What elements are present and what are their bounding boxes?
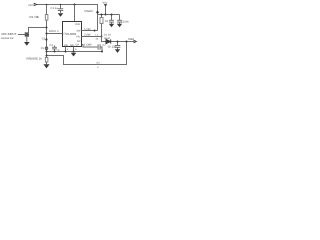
wire feedback bottom loop (47, 42, 127, 65)
node rail start dot (96, 11, 98, 13)
svg-text:4: 4 (67, 48, 69, 51)
capacitor C6 output (115, 42, 121, 50)
ground R2 (43, 64, 49, 68)
svg-text:C7: C7 (103, 44, 107, 47)
svg-text:FB: FB (77, 36, 80, 39)
power input arrow (34, 3, 37, 5)
op-amp U1 box (63, 22, 82, 47)
svg-text:MIC INPUT: MIC INPUT (2, 32, 17, 36)
svg-text:EN: EN (64, 33, 68, 36)
node tap dot (45, 38, 47, 40)
svg-text:RSENSE 1k: RSENSE 1k (27, 57, 43, 61)
ground C6 (115, 49, 120, 53)
svg-text:C1 1u: C1 1u (51, 7, 59, 10)
resistor R1 pullup (45, 5, 48, 34)
capacitor C5 (117, 15, 122, 24)
svg-text:GN: GN (70, 44, 74, 47)
capacitor C7 series (98, 44, 102, 51)
resistor R2 (45, 58, 48, 63)
ground C5 (117, 24, 122, 28)
svg-text:GN: GN (64, 44, 68, 47)
capacitor C1 (58, 5, 63, 14)
svg-text:NC: NC (77, 40, 81, 43)
svg-text:+5V: +5V (28, 4, 33, 7)
svg-text:a: a (97, 66, 99, 69)
wire top rail (37, 5, 98, 31)
svg-text:VDD: VDD (75, 23, 80, 26)
wire connector ground stub (26, 36, 28, 42)
svg-text:3 SW: 3 SW (84, 34, 91, 37)
svg-text:electret mic: electret mic (1, 37, 15, 40)
svg-text:C3: C3 (50, 44, 54, 47)
inductor L1 (100, 15, 103, 37)
ground connector (24, 42, 30, 46)
svg-text:C100n: C100n (121, 21, 129, 24)
wire SW pin row (82, 37, 135, 42)
wire vcc rail (98, 14, 120, 16)
ground C4 (109, 24, 114, 28)
wire label to connector (18, 34, 25, 36)
svg-text:C2: C2 (42, 37, 46, 40)
wire VDD pin drop (74, 5, 76, 22)
svg-text:XL6009: XL6009 (67, 32, 77, 36)
node input junction (46, 27, 48, 29)
wire divider chain (46, 34, 48, 58)
connector J1 (25, 33, 28, 36)
ground under C1 (58, 13, 64, 17)
node VIN junction dot top (74, 4, 76, 6)
svg-text:5 VIN: 5 VIN (84, 28, 91, 31)
svg-text:R1 10k: R1 10k (30, 15, 40, 19)
svg-text:Vout: Vout (128, 37, 134, 41)
svg-text:1 CMP: 1 CMP (84, 44, 92, 47)
wire COMP pin (82, 45, 98, 48)
wire input to IC (29, 28, 63, 35)
svg-text:CP: CP (76, 44, 80, 47)
connector P1 circle (45, 47, 48, 50)
wire VIN pin row (82, 30, 98, 32)
node output junction (126, 41, 128, 43)
svg-text:C4: C4 (105, 20, 109, 23)
svg-text:P1: P1 (41, 47, 45, 50)
svg-text:G: G (58, 49, 60, 52)
node dot C3 (54, 51, 56, 53)
svg-text:DOUT 5: DOUT 5 (49, 30, 59, 33)
capacitor C3 (52, 46, 57, 52)
wire IC gnd pins (65, 47, 67, 52)
svg-text:Power: Power (85, 9, 94, 13)
diode D1 (106, 39, 111, 43)
svg-text:4u: 4u (96, 38, 99, 41)
wire gnd rail under IC (47, 51, 103, 53)
svg-text:SW: SW (77, 30, 82, 33)
ground center (71, 53, 77, 57)
svg-text:C6 22u: C6 22u (108, 45, 117, 48)
svg-text:6: 6 (75, 48, 77, 51)
capacitor C4 (109, 15, 114, 24)
output arrow (134, 40, 137, 43)
